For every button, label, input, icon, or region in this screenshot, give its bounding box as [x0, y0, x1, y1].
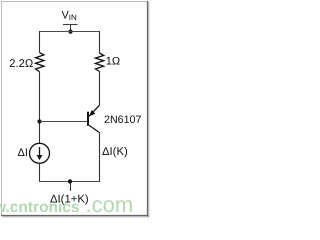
svg-text:.com: .com	[86, 192, 134, 217]
resistor R2 1ohm	[95, 53, 103, 72]
svg-text:ΔI(K): ΔI(K)	[102, 146, 128, 158]
wire output stub	[70, 182, 72, 192]
node base junction dot	[37, 119, 41, 123]
svg-text:IN: IN	[69, 13, 77, 22]
wire bottom horizontal	[39, 181, 100, 183]
node VIN label	[62, 9, 78, 22]
wire collector lead	[99, 133, 101, 182]
wire left branch middle	[39, 72, 41, 144]
svg-text:ΔI: ΔI	[18, 147, 28, 159]
wire left branch upper	[39, 31, 41, 53]
wire base horizontal	[40, 121, 88, 123]
resistor R1 2.2ohm	[36, 53, 44, 72]
svg-text:1Ω: 1Ω	[106, 56, 120, 68]
svg-text:2.2Ω: 2.2Ω	[9, 58, 33, 70]
VIN terminal bar	[63, 24, 78, 26]
wire VIN stub	[70, 25, 72, 32]
wire emitter lead	[99, 72, 101, 106]
node top junction dot	[68, 30, 72, 34]
wire top horizontal	[39, 31, 100, 33]
node output junction dot	[68, 179, 72, 183]
svg-text:ΔI(1+K): ΔI(1+K)	[50, 193, 89, 205]
wire left branch lower	[39, 163, 41, 182]
transistor Q1 2N6107	[88, 105, 100, 132]
svg-text:2N6107: 2N6107	[104, 114, 141, 126]
current source ΔI	[30, 143, 50, 163]
wire right branch upper	[99, 31, 101, 53]
